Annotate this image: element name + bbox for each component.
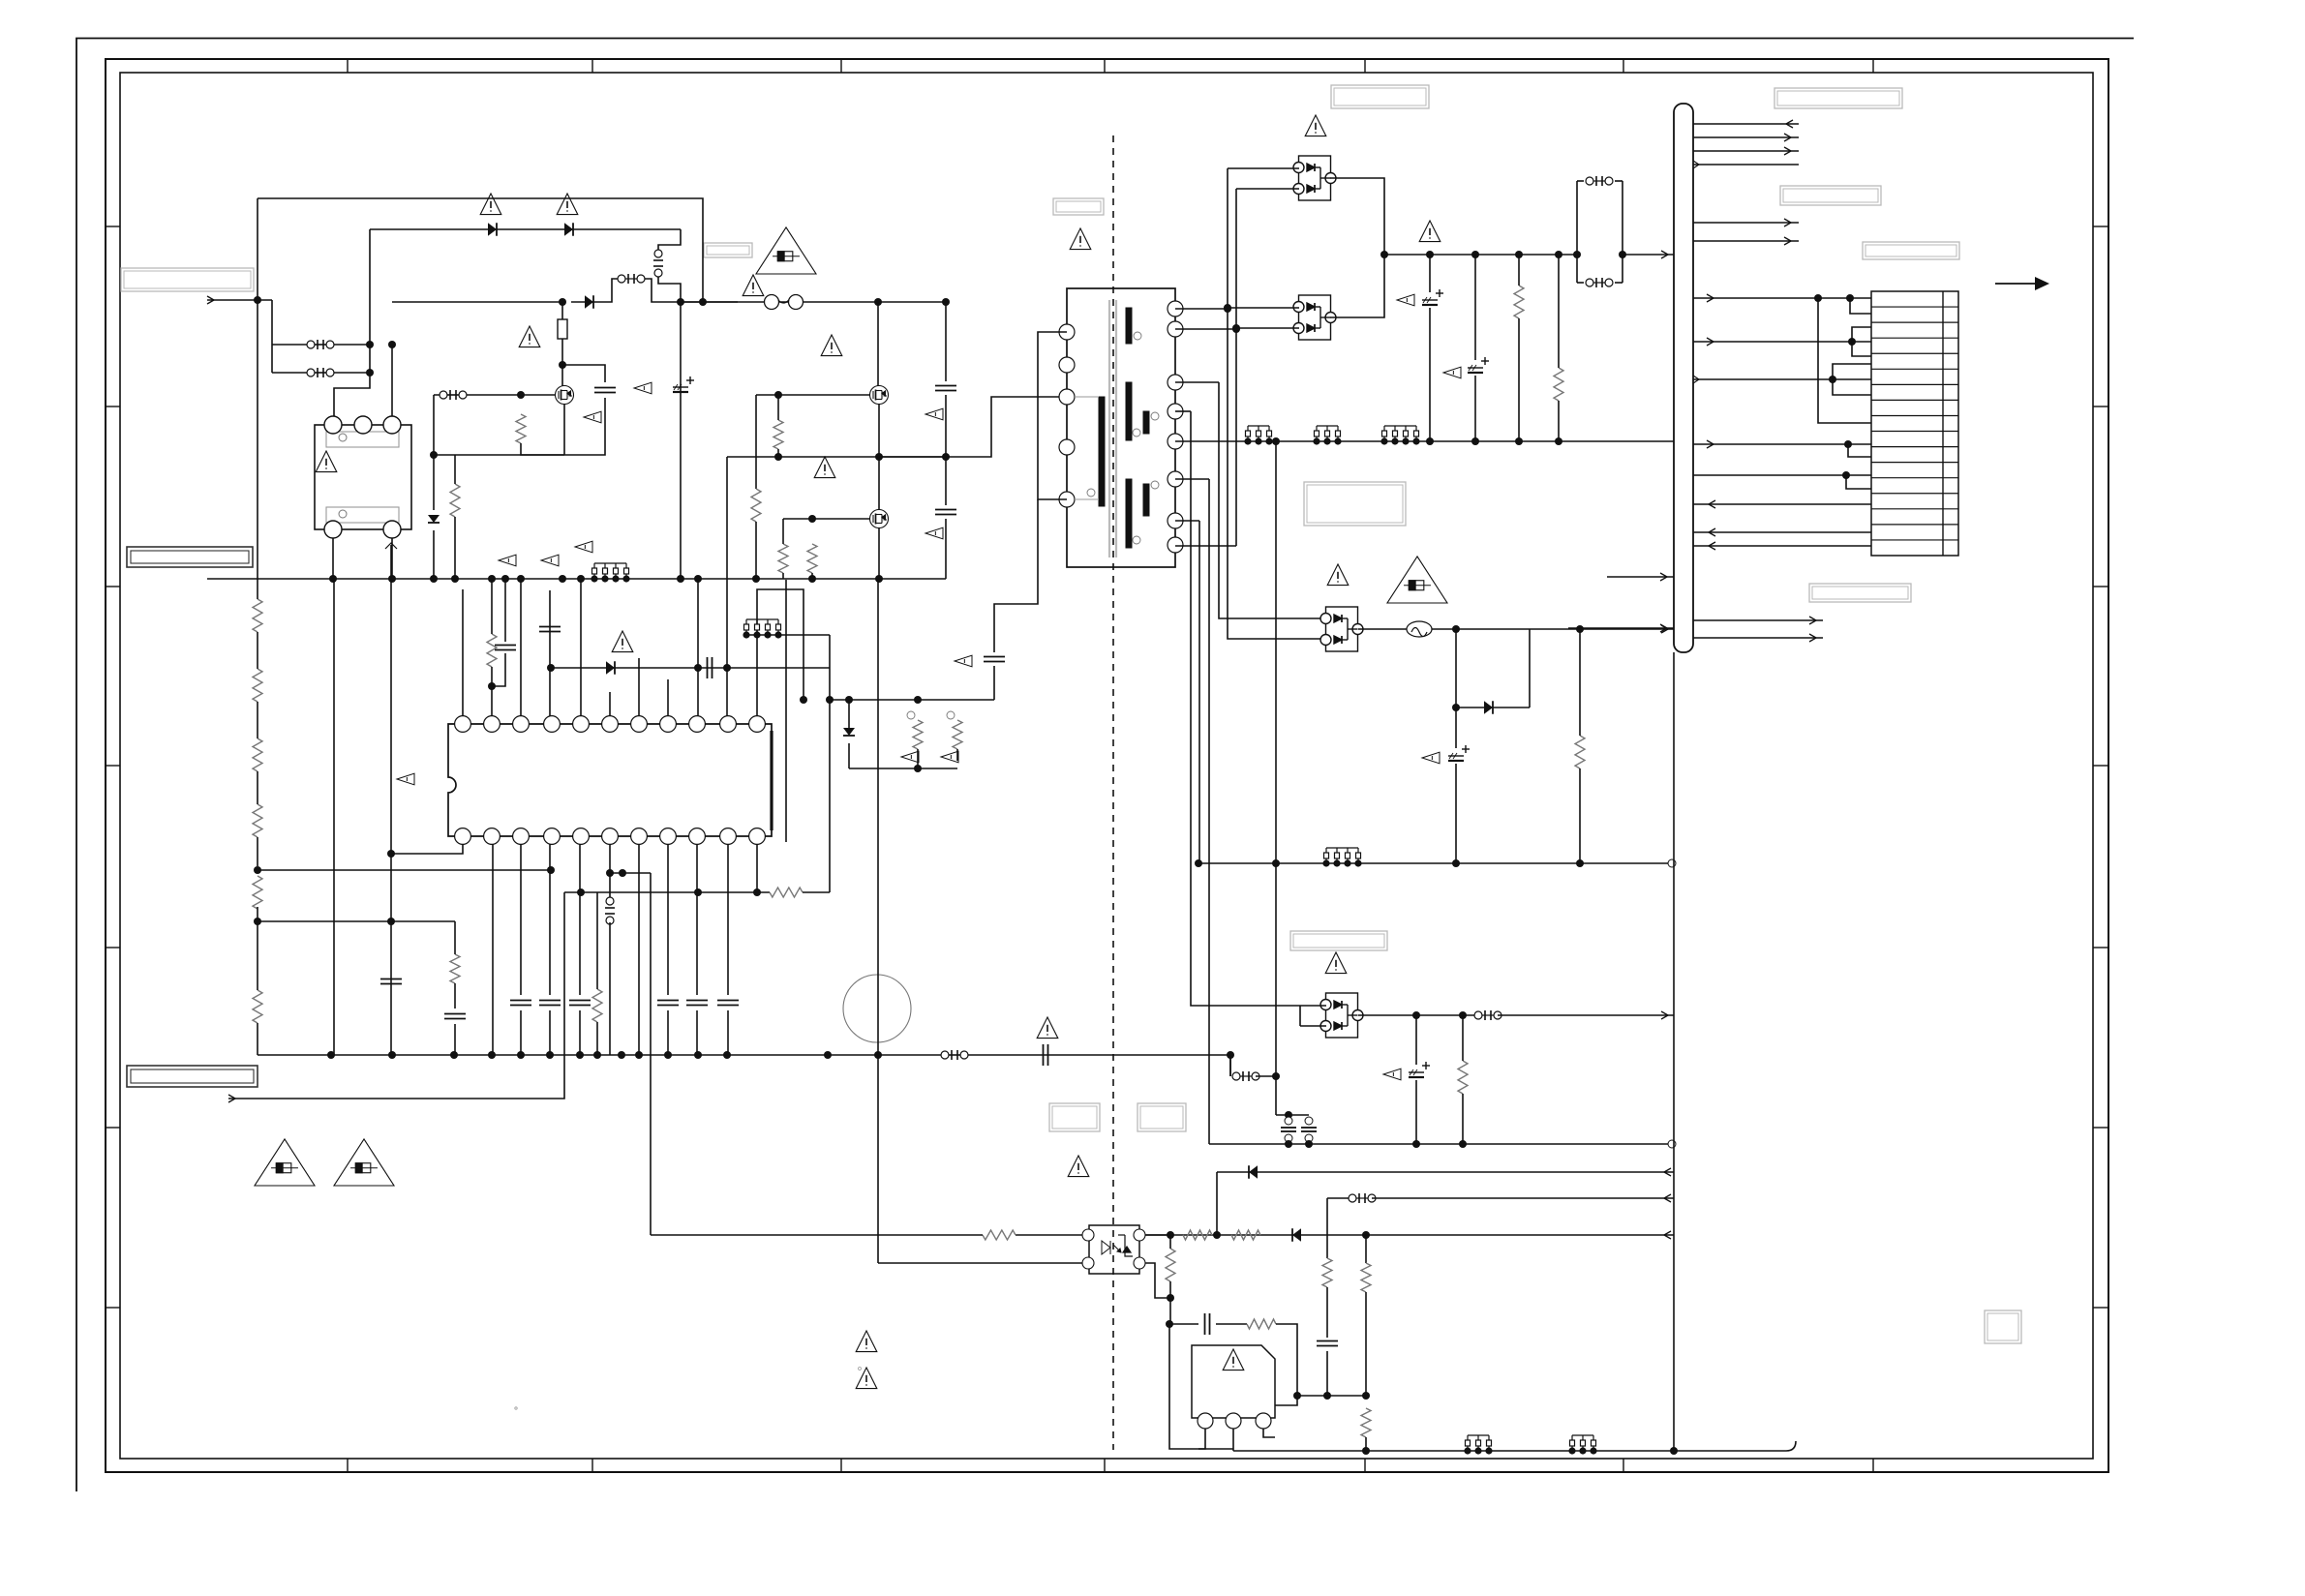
label box AC input [121, 268, 254, 291]
pin table row line 3 [1871, 337, 1958, 339]
junction x1318 link [1272, 1072, 1280, 1080]
wire row 899 [258, 869, 551, 871]
pin table row line 9 [1871, 431, 1958, 433]
C9 low [549, 1010, 551, 1055]
junction tw5 [1842, 471, 1850, 479]
wire U3 pin1 stub [1198, 1429, 1205, 1449]
IC U1 bottom pin 6 [602, 828, 619, 845]
arrowhead cr641 [1809, 617, 1816, 624]
junction bus0 1 [1426, 437, 1434, 445]
wire bus ext [1229, 1055, 1231, 1076]
IC U1 bottom pin 11 [749, 828, 766, 845]
sheet border frame inner [120, 73, 2093, 1459]
U1 bot pin4 wire [549, 844, 551, 995]
wire DR2 in1 [1228, 307, 1299, 309]
table wire 5 [1693, 474, 1871, 476]
table wire 1 [1693, 297, 1871, 299]
wire bead to node [1432, 628, 1456, 630]
arrowhead tw7 [1709, 528, 1715, 536]
sheet border frame outer [106, 59, 2108, 1472]
connector CN1 body [1674, 104, 1693, 652]
junction cap col top [942, 298, 950, 306]
junction bottom bus 13 [723, 1051, 731, 1059]
ground flag cluster 1 [901, 751, 919, 763]
IC U1 top pin 4 [544, 716, 561, 733]
junction row1 right [366, 341, 374, 348]
wire DR4 in loop [1299, 1006, 1301, 1026]
resistor R14 pin5b [592, 989, 602, 1022]
frame tick bottom 2 [591, 1459, 593, 1472]
capacitor C14 x470 [444, 1014, 466, 1019]
capacitor C5 pin2 [495, 646, 516, 650]
C11 low [667, 1010, 669, 1055]
label box secondary top [1331, 85, 1429, 108]
connector stub circle 2 [1668, 1140, 1676, 1148]
junction jc col 1 [1285, 1140, 1292, 1148]
junction input column a [254, 296, 261, 304]
junction row2 right [366, 369, 374, 376]
junction cap col mid [942, 453, 950, 461]
junction zener col [430, 451, 438, 459]
jumper J2 row2 [307, 368, 334, 377]
junction Q3 gate node [808, 515, 816, 523]
U3 pin 3 [1256, 1413, 1271, 1429]
junction x857 rail [826, 696, 834, 704]
table wire 2 [1693, 341, 1871, 343]
junction rail650 b [1576, 625, 1584, 633]
arrow rail 650 [1661, 625, 1668, 633]
junction secF bus0 [1272, 437, 1280, 445]
table wire 8 [1693, 545, 1871, 547]
fuse warning triangle big left [756, 227, 816, 274]
wire Q1 drain column [561, 365, 563, 386]
EMI filter comb F bottom [1569, 1435, 1596, 1454]
junction rail263 d [1555, 251, 1562, 258]
wire U3 pin3 stub [1263, 1429, 1275, 1437]
wire x1411 col b [1365, 1292, 1367, 1396]
input arrow [207, 299, 272, 301]
junction gnd bus f [677, 575, 684, 583]
junction bus892 b [1576, 859, 1584, 867]
wire loop right [1622, 181, 1623, 283]
ground flag gnd bus 2 [541, 555, 559, 566]
ground flag near Q1 [584, 411, 601, 423]
transformer core line gray2 [1115, 300, 1117, 557]
IC U1 bottom pin 4 [544, 828, 561, 845]
junction rail1049 b [1459, 1011, 1467, 1019]
wire fusible resistor link [561, 302, 563, 319]
wire row 1211 [1217, 1171, 1674, 1173]
junction pin3 tap [388, 341, 396, 348]
resistor R24 opto pullup [1166, 1249, 1175, 1281]
junction row899 r [547, 866, 555, 874]
transformer polarity dot 1 [1134, 332, 1141, 340]
junction loop rail [1573, 251, 1581, 258]
wire comp row c [1264, 1324, 1297, 1415]
wire sec vertical B [1235, 189, 1237, 546]
junction row922 b [694, 888, 702, 896]
frame tick right 2 [2093, 406, 2108, 407]
jumper-cap column 2 bottom circle [1305, 1134, 1313, 1142]
EMI filter comb B bus0 [1314, 426, 1341, 444]
transformer primary bar [1099, 397, 1105, 506]
wire cap col bottom [945, 519, 947, 579]
junction cluster c [914, 765, 922, 772]
transformer secondary bar 5 [1143, 484, 1149, 516]
wire diode row above U1 [551, 667, 830, 669]
transformer secondary bar 4 [1126, 479, 1132, 548]
junction secB tap [1232, 325, 1240, 333]
wire left chain b [257, 632, 258, 669]
transformer primary pin 3 [1059, 389, 1075, 405]
transformer T1 outline [1067, 288, 1175, 567]
warning triangle above D2 [557, 194, 578, 215]
capacitor C24 comp [1205, 1313, 1210, 1335]
frame tick right 1 [2093, 226, 2108, 227]
pin table divider [1942, 291, 1944, 556]
wire row 922 [564, 891, 770, 893]
wire x857 column [829, 635, 831, 892]
wire R18 col [1558, 255, 1560, 368]
resistor R3 left chain [253, 738, 262, 771]
polarized capacitor C20 [1448, 745, 1470, 761]
line filter box body [315, 425, 411, 529]
wire relay feed [334, 229, 370, 425]
wire R20 col [1462, 1015, 1464, 1061]
junction bottom bus 7 [576, 1051, 584, 1059]
junction diode row left [547, 664, 555, 672]
label box bottom center 2 [1137, 1103, 1186, 1131]
wire x1411 col c [1365, 1437, 1367, 1451]
wire C5 up [504, 580, 506, 642]
junction gnd bus h [488, 575, 496, 583]
wire startup diode row [571, 279, 618, 302]
transformer polarity dot 5 [1133, 536, 1140, 544]
resistor R5 left chain [253, 876, 262, 909]
capacitor C22 column [1281, 1128, 1296, 1131]
zener diode ZD1 [428, 515, 440, 523]
U1 top pin1 wire [462, 589, 464, 716]
fusible resistor body [558, 319, 567, 339]
U1 top pin6 wire [609, 692, 611, 716]
IC U1 top pin 1 [455, 716, 471, 733]
wire rail 650 b [1530, 628, 1674, 630]
resistor R10 Q3 gate [778, 544, 788, 573]
ground flag C18 [1397, 294, 1414, 306]
fuse warning triangle B [334, 1139, 394, 1186]
arrowhead tw2 [1707, 338, 1714, 346]
wire sec vertical C [1191, 411, 1300, 1006]
junction rail5V [1380, 251, 1388, 258]
C8 low [520, 1010, 522, 1055]
EMI filter comb C bus0 [1381, 426, 1419, 444]
wire sec pin7 link [1175, 520, 1199, 522]
jumper J11 row1246 [1349, 1193, 1376, 1203]
warning triangle DR3 [1327, 564, 1349, 586]
pin table row line 6 [1871, 383, 1958, 385]
connector signal wire b2 [1693, 240, 1799, 242]
transformer polarity dot 6 [1087, 489, 1095, 497]
wire trafo snubber loop [1038, 332, 1067, 499]
table stub row3 [1852, 327, 1871, 342]
jumper J6 on bus ext [941, 1050, 968, 1060]
R14 low [596, 1022, 598, 1055]
frame tick left 1 [106, 226, 120, 227]
ground flag C19 [1443, 367, 1461, 378]
wire R8 bottom [777, 449, 779, 457]
label box right fourth [1809, 584, 1911, 602]
pin table row line 5 [1871, 368, 1958, 370]
U1 bot pin10 wire [727, 844, 729, 995]
junction bottom bus 3 [450, 1051, 458, 1059]
junction bus1182 b [1459, 1140, 1467, 1148]
diode D2 on snubber rail [564, 223, 573, 236]
diode D4 above U1 [606, 661, 615, 675]
wire sec pin2 link [1175, 328, 1236, 330]
ground flag C21 [1383, 1069, 1401, 1080]
wire loop top b [1615, 180, 1623, 182]
wire x1318 stub [1275, 1076, 1277, 1115]
wire rail 312 left segment [681, 301, 738, 303]
U1 bot pin2 wire [492, 844, 494, 1055]
wire R20 low [1462, 1094, 1464, 1144]
wire DR4 out rail [1358, 1014, 1478, 1016]
junction pin6 row902 [606, 869, 614, 877]
IC U1 top pin 9 [689, 716, 706, 733]
connector notch arrow tw3 [1693, 376, 1699, 383]
wire fusible to Q1 drain [561, 339, 563, 365]
frame tick left 6 [106, 1127, 120, 1129]
large circle marker [843, 975, 911, 1042]
junction z node [1452, 704, 1460, 711]
wire left chain g [257, 921, 258, 990]
label box right second [1780, 186, 1881, 205]
wire z row [1456, 707, 1530, 708]
dual diode rectifier DR1 [1293, 156, 1336, 200]
frame tick left 4 [106, 765, 120, 767]
wire comp row b [1216, 1323, 1247, 1325]
junction tw4 [1844, 440, 1852, 448]
wire opto in1 left [651, 1234, 983, 1236]
junction rail263 a [1426, 251, 1434, 258]
wire DR1 in2 [1236, 188, 1299, 190]
wire Q2 gate row [756, 394, 870, 396]
wire filter pin5 to gnd bus [391, 538, 393, 579]
wire cluster top rail [830, 699, 994, 701]
IC U1 top pin 6 [602, 716, 619, 733]
capacitor C10 pin5 [569, 1001, 591, 1006]
wire resonant low [993, 666, 995, 700]
optocoupler U2 body [1089, 1225, 1139, 1274]
pin table row line 13 [1871, 493, 1958, 495]
junction rail 312 b [699, 298, 707, 306]
wire R24 v [1169, 1235, 1171, 1249]
warning triangle in U3 [1223, 1349, 1244, 1370]
wire z path down [1455, 629, 1457, 708]
wire R7 lower [454, 517, 456, 579]
junction gnd bus i [501, 575, 509, 583]
pin table row line 1 [1871, 306, 1958, 308]
jumper J1 row1 [307, 340, 334, 349]
warning triangle sec mid [1419, 221, 1441, 242]
wire C21 col [1415, 1015, 1417, 1065]
wire Q3 source [878, 527, 880, 579]
transformer secondary pin 8 [1168, 537, 1183, 553]
pin table row line 2 [1871, 321, 1958, 323]
wire zd2 low [848, 743, 850, 768]
junction DR2 in2 [1232, 324, 1240, 332]
wire loop bottom a [1577, 282, 1584, 284]
wire row 1276 [1145, 1234, 1674, 1236]
arrow row1276 [1664, 1231, 1671, 1239]
table stub row6 [1833, 379, 1871, 395]
ground flag zener [575, 541, 592, 553]
wire cluster stub [1276, 1114, 1309, 1116]
arrowhead sig 3 [1784, 147, 1791, 155]
polarized capacitor C19 [1468, 357, 1489, 373]
transformer secondary pin 6 [1168, 471, 1183, 487]
wire x1371 col [1326, 1198, 1328, 1258]
wire R10 bottom [782, 573, 784, 579]
wire rail1049 to connector [1498, 1014, 1674, 1016]
wire C2 bottom [564, 398, 605, 455]
R16 up [454, 921, 456, 954]
wire rail to connector [1623, 254, 1674, 256]
wire R6 bottom to source node [521, 443, 564, 455]
label box small top-center [704, 243, 752, 257]
wire R7 ties [454, 455, 456, 484]
junction Q3 source gnd [875, 575, 883, 583]
warning triangle near trafo top [1070, 228, 1091, 250]
junction cluster a [845, 696, 853, 704]
connector stub circle [1668, 859, 1676, 867]
IC U1 bottom pin 9 [689, 828, 706, 845]
IC U1 top pin 10 [720, 716, 737, 733]
fuse warning triangle right [1387, 557, 1447, 603]
arrowhead cr659 [1809, 634, 1816, 642]
pin table row line 4 [1871, 352, 1958, 354]
ground flag bulk [634, 382, 652, 394]
frame tick bottom 6 [1623, 1459, 1624, 1472]
capacitor C11 pin8 [657, 1001, 679, 1006]
junction diode row mid [694, 664, 702, 672]
wire Q2 gate drive col [755, 395, 757, 489]
wire rail 312 to transformer [703, 301, 946, 303]
wire rail 650 [1456, 628, 1530, 630]
wire top rail from left column [258, 198, 703, 302]
frame tick top 7 [1872, 59, 1874, 73]
wire Q1 source down [563, 404, 565, 455]
fuse warning triangle A [255, 1139, 315, 1186]
C13 low [727, 1010, 729, 1055]
transformer secondary pin 1 [1168, 301, 1183, 316]
U1 top pin10 wire [726, 668, 728, 716]
bulk capacitor C1 [673, 376, 694, 392]
big output arrow [1995, 277, 2049, 290]
line filter pin circle 1 [324, 416, 342, 434]
junction pin2 tap [488, 682, 496, 690]
IC U1 bottom pin 8 [660, 828, 677, 845]
wire left chain [257, 579, 258, 599]
frame tick right 4 [2093, 765, 2108, 767]
junction pin11 rail [800, 696, 807, 704]
junction tw1 a [1814, 294, 1822, 302]
U1 top pin7 wire [638, 658, 640, 716]
capacitor C9 pin4 [539, 1001, 561, 1006]
wire R18 low [1558, 401, 1560, 441]
resistor R26 x1371 [1322, 1258, 1332, 1287]
wire DR2 in2 [1236, 327, 1299, 329]
wire R17 col [1518, 255, 1520, 286]
capacitor C16 on bus ext [1044, 1044, 1048, 1066]
warning triangle above U1 [612, 631, 633, 652]
capacitor C8 pin3 [510, 1001, 531, 1006]
isolation barrier dashed line [1112, 136, 1114, 1450]
wire sec vertical F [1275, 441, 1277, 1076]
junction bus892 c [1195, 859, 1202, 867]
U1 top pin5 wire [580, 580, 582, 716]
wire x1208 wrap [1169, 1324, 1198, 1449]
connector signal wire b1 [1693, 222, 1799, 224]
wire Q1 gate row [434, 394, 556, 396]
U1 bot pin5 wire [579, 844, 581, 995]
wire R10 v [782, 519, 784, 544]
resistor R17 rail [1514, 286, 1524, 318]
junction bus0 4 [1555, 437, 1562, 445]
pin table row line 12 [1871, 477, 1958, 479]
frame tick top 4 [1104, 59, 1106, 73]
junction gnd bus c [430, 575, 438, 583]
wire sec pin1 link [1175, 308, 1228, 310]
frame tick right 5 [2093, 947, 2108, 949]
label box left middle [127, 547, 253, 567]
ground flag cap upper [925, 408, 943, 420]
wire loop left [1576, 181, 1578, 283]
wire secondary bottom bus [1198, 1448, 1233, 1450]
junction opto low node [1167, 1294, 1174, 1302]
wire vertical x345 [333, 579, 335, 1055]
wire zener column [433, 455, 435, 510]
junction x1411 bus [1362, 1447, 1370, 1455]
IC U1 top pin 8 [660, 716, 677, 733]
wire mid bus [727, 456, 946, 458]
frame tick bottom 1 [347, 1459, 349, 1472]
junction rail650 a [1452, 625, 1460, 633]
junction rail 312 a [677, 298, 684, 306]
optocoupler LED [1102, 1241, 1121, 1254]
C10 low [579, 1010, 581, 1055]
junction x1209 row1368 [1166, 1320, 1173, 1328]
transformer secondary pin 5 [1168, 434, 1183, 449]
C12 low [696, 1010, 698, 1055]
label box under transformer [1304, 482, 1406, 526]
arrowhead tw4 [1707, 440, 1714, 448]
junction tw2 [1848, 338, 1856, 346]
junction R11 gnd [808, 575, 816, 583]
U1 top pin4 wire [549, 590, 551, 716]
junction rail263 c [1515, 251, 1523, 258]
wire row 902 [610, 872, 651, 874]
frame tick left 2 [106, 406, 120, 407]
junction bottom bus 2 [388, 1051, 396, 1059]
U1 bot pin3 wire [520, 844, 522, 995]
diode D6 row1211 [1249, 1165, 1258, 1179]
capacitor C15 x404 [380, 979, 402, 984]
capacitor C25 x1371 [1317, 1341, 1338, 1346]
arrow rail 263 [1661, 251, 1668, 258]
wire link row 1093 [1229, 1055, 1231, 1076]
capacitor C4 half-bridge lower [935, 510, 956, 515]
